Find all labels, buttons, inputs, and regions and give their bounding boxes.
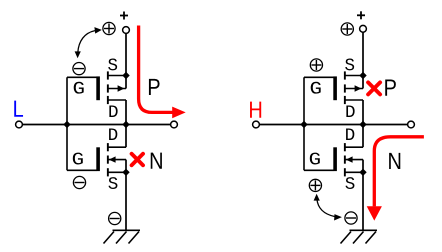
input/output horizontal wire (left)	[22, 124, 170, 126]
circled-minus near ground (right)	[345, 212, 357, 224]
input label H (red)	[250, 102, 261, 118]
circled-plus symbol near left supply	[103, 22, 115, 34]
output node junction (right)	[359, 121, 366, 128]
ground symbol (left)	[104, 230, 141, 243]
circled-plus symbol near PMOS gate (right)	[310, 59, 322, 71]
NMOS Q2 source junction dot	[122, 169, 129, 176]
PMOS Q3 label D	[346, 105, 354, 117]
PMOS Q3 source contact	[345, 75, 363, 77]
PMOS Q3 label S	[345, 58, 354, 70]
PMOS Q3 gate bar	[333, 76, 337, 100]
PMOS Q1 label D	[109, 105, 117, 117]
ground wire (left)	[125, 172, 127, 230]
NMOS Q2 drain wire from output node	[125, 125, 127, 148]
output node junction (left)	[122, 121, 129, 128]
label P (left, current path)	[149, 79, 160, 95]
curved double arrow gate-plus to ground-minus (right)	[314, 194, 342, 221]
NMOS Q4 gate vertical wire	[303, 125, 305, 171]
gate node junction (right)	[300, 121, 307, 128]
wire supply to PMOS source (left)	[125, 33, 127, 75]
NMOS Q2 gate vertical wire	[66, 125, 68, 171]
PMOS Q1 drain wire down to output node	[125, 100, 127, 125]
NMOS Q4 body-to-source wire	[362, 160, 364, 173]
wire source to body contact (right PMOS)	[362, 76, 364, 89]
circled-plus symbol near right supply	[341, 23, 353, 35]
PMOS Q1 channel segments	[107, 71, 109, 104]
PMOS Q1 gate lead	[67, 76, 97, 78]
red X on NMOS (left, off)	[132, 154, 143, 165]
NMOS Q2 body contact with arrow	[108, 156, 126, 162]
circled-minus symbol near PMOS gate (left)	[73, 63, 85, 75]
NMOS Q2 label D	[109, 128, 117, 140]
NMOS Q4 channel segments	[344, 143, 346, 176]
PMOS Q3 label G	[311, 82, 321, 94]
NMOS Q2 body-to-source wire	[125, 160, 127, 173]
NMOS Q4 gate bar	[333, 147, 337, 171]
NMOS Q4 gate lead	[304, 169, 334, 171]
NMOS Q4 source junction dot	[359, 169, 366, 176]
input terminal (right)	[253, 121, 260, 128]
NMOS Q2 gate lead	[67, 169, 97, 171]
supply plus sign (right)	[357, 11, 365, 19]
gate node junction (left)	[63, 121, 70, 128]
NMOS Q2 channel segments	[107, 143, 109, 176]
NMOS Q4 body contact with arrow	[345, 156, 363, 162]
NMOS Q2 drain contact	[108, 146, 126, 148]
label P (right, blocked path)	[385, 80, 396, 96]
output terminal (left)	[171, 121, 178, 128]
PMOS Q3 drain contact	[345, 99, 363, 101]
PMOS Q1 source contact	[108, 75, 126, 77]
op PMOS Q1 label S	[108, 58, 117, 70]
PMOS Q1 gate vertical wire	[66, 77, 68, 124]
wire source to body contact (left PMOS)	[125, 76, 127, 89]
PMOS Q1 gate bar	[96, 76, 100, 100]
PMOS Q3 source junction dot	[359, 72, 366, 79]
curved double arrow gate-minus to supply-plus (left)	[75, 27, 102, 58]
PMOS Q1 source junction dot	[122, 72, 129, 79]
circled-plus below NMOS gate (right)	[309, 179, 321, 191]
red current arrow through NMOS (right)	[367, 137, 424, 221]
PMOS Q3 channel segments	[344, 71, 346, 104]
input/output horizontal wire (right)	[259, 124, 407, 126]
NMOS Q2 gate bar	[96, 147, 100, 171]
red current arrow through PMOS (left)	[139, 26, 186, 119]
PMOS Q1 label G	[74, 82, 84, 94]
label N (right, current path)	[389, 153, 400, 169]
NMOS Q2 label S	[108, 177, 117, 189]
input label L (blue)	[14, 101, 23, 117]
NMOS Q4 drain contact	[345, 146, 363, 148]
supply plus sign (left)	[120, 12, 128, 20]
PMOS Q3 body contact with arrow	[345, 85, 363, 91]
NMOS Q2 label G	[73, 153, 83, 165]
NMOS Q4 label S	[345, 177, 354, 189]
NMOS Q2 source contact	[108, 171, 126, 173]
circled-minus below NMOS gate (left)	[73, 176, 85, 188]
ground wire (right)	[362, 172, 364, 230]
PMOS Q3 gate lead	[304, 76, 334, 78]
ground symbol (right)	[341, 230, 378, 243]
output terminal (right)	[408, 121, 415, 128]
input terminal (left)	[16, 121, 23, 128]
wire supply to PMOS source (right)	[362, 32, 364, 75]
supply terminal (right)	[360, 25, 367, 32]
label N (left, blocked path)	[151, 153, 162, 169]
NMOS Q4 label D	[346, 128, 354, 140]
NMOS Q4 drain wire from output node	[362, 125, 364, 148]
circled-minus near ground (left)	[109, 212, 121, 224]
NMOS Q4 label G	[310, 153, 320, 165]
red X on PMOS (right, off)	[368, 82, 380, 94]
PMOS Q3 gate vertical wire	[303, 77, 305, 124]
PMOS Q1 drain contact	[108, 99, 126, 101]
PMOS Q1 body contact with arrow	[108, 85, 126, 91]
PMOS Q3 drain wire down to output node	[362, 100, 364, 125]
supply terminal (left)	[123, 27, 130, 34]
NMOS Q4 source contact	[345, 171, 363, 173]
